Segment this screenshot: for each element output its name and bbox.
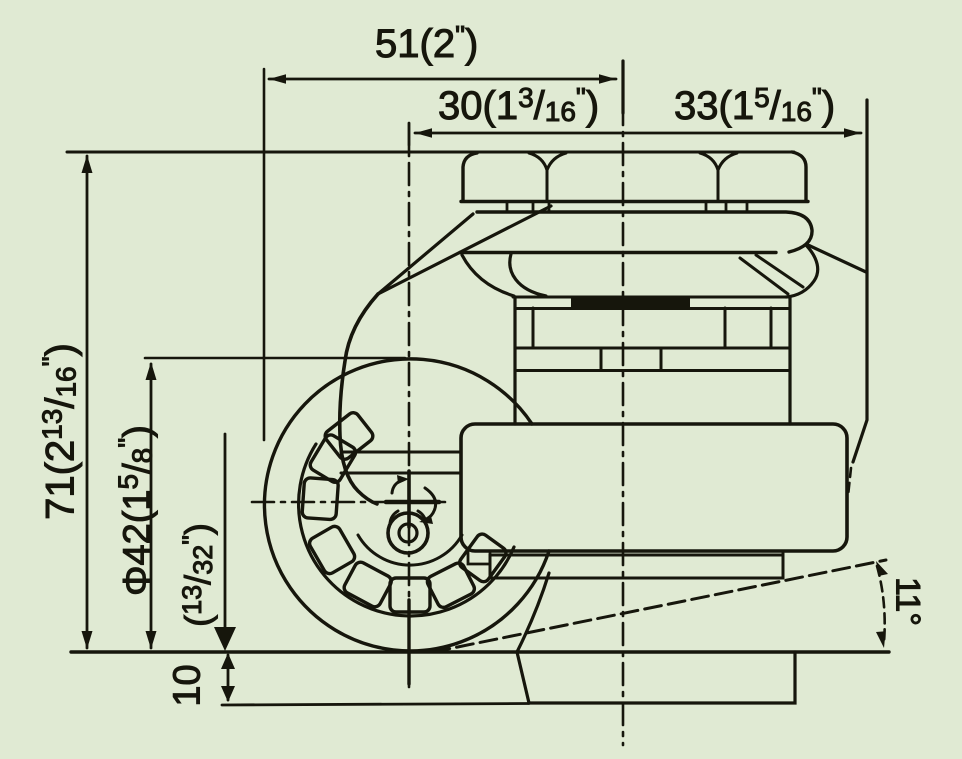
leader 13/32 arrowhead xyxy=(214,627,236,651)
dim 51 arrowheads xyxy=(269,74,616,84)
hub cross vertical xyxy=(407,471,411,527)
hub cross horizontal xyxy=(386,500,439,505)
hub horn left xyxy=(390,511,398,523)
hex nut facet chamfer V left xyxy=(529,153,566,170)
wall line xyxy=(853,100,867,462)
wheel outer race arc xyxy=(299,444,514,616)
dim text 10 rotated xyxy=(167,656,210,716)
hub swivel arrow top-left head xyxy=(397,475,409,484)
bell left edge outer xyxy=(462,255,514,296)
dim text 30(1 3/16") xyxy=(438,82,599,129)
dim phi42 extension line xyxy=(145,357,405,360)
main body rounded rect xyxy=(461,424,847,551)
dim 51 right tick xyxy=(621,61,624,113)
roller 1 xyxy=(457,532,508,584)
band dividers upper xyxy=(533,308,771,348)
foot band left block xyxy=(468,551,490,564)
black locking bar xyxy=(571,297,690,309)
angle arc arrowheads xyxy=(876,561,888,648)
dim 30 extension tick xyxy=(408,123,411,152)
stem block left edge xyxy=(513,297,516,424)
arm diagonal upper xyxy=(378,214,473,294)
wheel outer circle xyxy=(264,359,549,651)
roller 2 xyxy=(425,561,476,609)
plate to wall diagonal xyxy=(808,245,866,272)
wall line dashed continuation xyxy=(848,468,851,496)
base plate below ground xyxy=(517,652,795,703)
right wing hatch 2 xyxy=(756,255,803,287)
dim 10 arrowheads xyxy=(221,653,235,702)
right wing hatch 1 xyxy=(740,258,788,294)
dim text phi42(1 5/8") rotated xyxy=(113,405,160,617)
tilted line 11 deg dashed xyxy=(433,560,886,652)
roller 8 xyxy=(323,410,375,461)
dim text 51(2") xyxy=(375,20,478,67)
top plate xyxy=(460,212,812,253)
dim 10 line xyxy=(227,655,230,700)
dim 30-33 line xyxy=(415,132,861,135)
axle band bottom xyxy=(341,472,461,475)
hex nut facet divider left xyxy=(546,170,549,201)
dim text (13/32") rotated xyxy=(177,500,219,650)
bell left edge inner xyxy=(510,254,546,296)
dim phi42 line xyxy=(150,364,153,648)
dim phi42 arrowheads xyxy=(146,362,157,649)
hub inner circle xyxy=(399,524,417,542)
wheel centerline vertical xyxy=(408,123,411,687)
dim 71 arrowheads xyxy=(82,155,93,649)
wheel centerline bottom solid segment xyxy=(407,600,410,684)
dim 51 line xyxy=(269,78,616,81)
stem block right edge xyxy=(788,297,791,424)
foot band top line xyxy=(490,554,783,557)
band line y308 xyxy=(515,307,790,310)
band line y370 xyxy=(517,369,790,372)
arm diagonal lower xyxy=(378,206,551,294)
hub swivel arrow top-left xyxy=(392,480,403,493)
foot band xyxy=(490,553,783,578)
roller 5 xyxy=(307,524,356,576)
washer tabs under nut xyxy=(507,203,747,211)
bell bottom line xyxy=(513,296,790,299)
wheel centerline horizontal xyxy=(252,501,448,504)
angle arc 11deg xyxy=(877,566,885,642)
hub swivel arc right head xyxy=(419,516,433,524)
band dividers middle xyxy=(601,348,661,370)
wheel inner race arc xyxy=(358,535,462,565)
base plate left edge above ground xyxy=(517,573,549,652)
roller 7 xyxy=(308,433,358,485)
dim 71 line xyxy=(86,156,89,648)
bell right edge xyxy=(786,245,818,297)
dim text 33(1 5/16") xyxy=(674,82,835,129)
hex nut body xyxy=(461,152,808,202)
band line y348 xyxy=(515,347,790,350)
hub swivel arc right xyxy=(424,488,436,520)
stem centerline xyxy=(622,63,625,745)
dim 10 bottom extension xyxy=(222,704,529,706)
ground line xyxy=(71,650,889,653)
axle band top xyxy=(341,451,461,454)
dim 30-33 arrowheads xyxy=(415,128,861,138)
roller 3 xyxy=(390,578,430,612)
roller 4 xyxy=(342,560,393,609)
roller 6 xyxy=(302,478,339,520)
dim 51 left extension line xyxy=(263,69,266,440)
hub horn right xyxy=(418,511,426,523)
hex nut facet divider right xyxy=(717,170,720,201)
arm outer edge curve xyxy=(340,294,378,504)
rollers xyxy=(302,410,508,612)
top face line / 71 extension xyxy=(67,151,794,154)
dim text 71(2 13/16") rotated xyxy=(37,314,84,550)
hub outer circle xyxy=(388,513,428,553)
leader 13/32 xyxy=(224,434,227,630)
dim text 11 deg rotated xyxy=(888,567,927,637)
hex nut facet chamfer V right xyxy=(700,153,737,170)
